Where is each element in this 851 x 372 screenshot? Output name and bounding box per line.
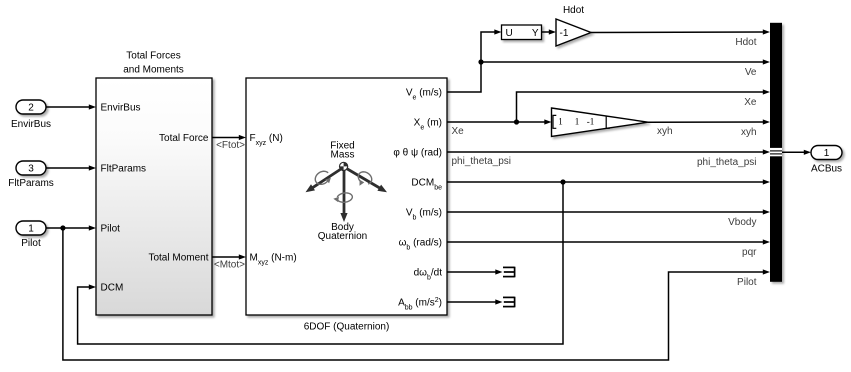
- svg-text:Total Force: Total Force: [159, 133, 209, 144]
- gain Hdot (-1): [556, 19, 591, 46]
- wire DCM_be to Bus Creator: [447, 181, 765, 183]
- svg-text:6DOF (Quaternion): 6DOF (Quaternion): [304, 321, 390, 332]
- svg-text:1: 1: [824, 148, 830, 159]
- svg-text:Hdot: Hdot: [563, 5, 584, 16]
- wire V_b to Bus Creator: [447, 211, 765, 213]
- svg-text:xyh: xyh: [741, 127, 757, 138]
- terminator for domega_b/dt: [447, 271, 497, 273]
- icon roll rotation curl: [315, 171, 328, 184]
- svg-text:ACBus: ACBus: [811, 164, 842, 175]
- svg-text:Vbody: Vbody: [728, 217, 756, 228]
- svg-text:1: 1: [558, 117, 563, 127]
- svg-text:Xe: Xe: [452, 126, 465, 137]
- svg-text:Pilot: Pilot: [21, 238, 41, 249]
- svg-text:-1: -1: [560, 28, 569, 39]
- icon z-axis arrow: [343, 167, 346, 214]
- svg-text:<Mtot>: <Mtot>: [214, 260, 245, 271]
- svg-text:Pilot: Pilot: [101, 224, 121, 235]
- inport 2 EnvirBus: [16, 100, 46, 114]
- wire phi_theta_psi to Bus Creator: [447, 151, 765, 153]
- svg-text:Total Forces: Total Forces: [126, 51, 180, 62]
- wire Bus Creator to ACBus outport: [782, 151, 805, 153]
- wire Ve to Bus Creator: [481, 61, 765, 63]
- svg-text:2: 2: [28, 103, 34, 114]
- svg-text:xyh: xyh: [657, 126, 673, 137]
- svg-text:φ θ ψ (rad): φ θ ψ (rad): [393, 147, 442, 158]
- svg-text:Hdot: Hdot: [735, 37, 756, 48]
- label xyh gain matrix left bracket: [553, 115, 556, 128]
- svg-text:-1: -1: [587, 117, 595, 127]
- inport 3 FltParams: [16, 161, 46, 175]
- svg-text:phi_theta_psi: phi_theta_psi: [697, 157, 757, 168]
- wire EnvirBus to Total Forces: [46, 106, 91, 108]
- svg-text:Pilot: Pilot: [737, 277, 757, 288]
- svg-text:DCM: DCM: [101, 283, 124, 294]
- node DCM_be branch junction: [560, 179, 565, 184]
- wire V_e output up to selector: [447, 32, 495, 92]
- svg-text:Total Moment: Total Moment: [148, 253, 208, 264]
- wire omega_b to Bus Creator: [447, 241, 765, 243]
- icon y-axis arrow: [344, 167, 380, 188]
- svg-text:1: 1: [575, 117, 580, 127]
- wire FltParams to Total Forces: [46, 167, 91, 169]
- svg-text:1: 1: [28, 224, 34, 235]
- wire Pilot to Bus Creator (bottom route): [63, 228, 765, 360]
- block 6DOF (Quaternion): [246, 78, 447, 315]
- svg-text:Xe: Xe: [744, 97, 757, 108]
- subsystem Total Forces and Moments: [96, 78, 212, 315]
- node Pilot branch junction: [60, 225, 65, 230]
- svg-text:pqr: pqr: [742, 247, 757, 258]
- svg-text:FltParams: FltParams: [8, 178, 54, 189]
- svg-text:Quaternion: Quaternion: [318, 231, 367, 242]
- bus creator output icon: [770, 148, 782, 156]
- svg-text:<Ftot>: <Ftot>: [216, 140, 245, 151]
- wire Total Force to 6DOF: [212, 137, 241, 139]
- node Ve branch junction: [478, 59, 483, 64]
- outport 1 ACBus: [811, 146, 842, 160]
- svg-text:EnvirBus: EnvirBus: [11, 119, 51, 130]
- icon center of mass: [340, 162, 348, 170]
- wire xyh gain to Bus Creator: [648, 121, 765, 123]
- svg-text:U: U: [506, 28, 513, 39]
- icon pitch rotation curl: [358, 172, 371, 184]
- node Xe branch junction: [514, 119, 519, 124]
- bus creator ACBus: [770, 23, 782, 282]
- wire Hdot gain to Bus Creator: [591, 31, 765, 34]
- wire X_e output to xyh gain: [447, 121, 546, 123]
- svg-text:Ve: Ve: [745, 67, 757, 78]
- terminator for A_bb: [447, 301, 497, 303]
- svg-text:Mass: Mass: [331, 150, 355, 161]
- gain xyh [1 1 -1]: [552, 108, 649, 137]
- icon yaw rotation curl: [337, 193, 352, 202]
- label xyh gain matrix right bracket: [606, 116, 610, 128]
- svg-text:and Moments: and Moments: [123, 65, 184, 76]
- svg-text:EnvirBus: EnvirBus: [101, 103, 141, 114]
- selector U Y block: [502, 25, 542, 40]
- inport 1 Pilot: [16, 221, 46, 235]
- svg-text:phi_theta_psi: phi_theta_psi: [452, 156, 512, 167]
- wire Xe to Bus Creator: [517, 92, 765, 122]
- icon x-axis arrow: [312, 167, 344, 188]
- svg-text:FltParams: FltParams: [101, 164, 147, 175]
- svg-text:3: 3: [28, 164, 34, 175]
- svg-text:Y: Y: [532, 28, 539, 39]
- wire DCM feedback to Total Forces: [78, 182, 563, 344]
- wire Pilot to Total Forces: [46, 227, 91, 229]
- wire Total Moment to 6DOF: [212, 256, 241, 258]
- wire selector to Hdot gain: [542, 31, 551, 33]
